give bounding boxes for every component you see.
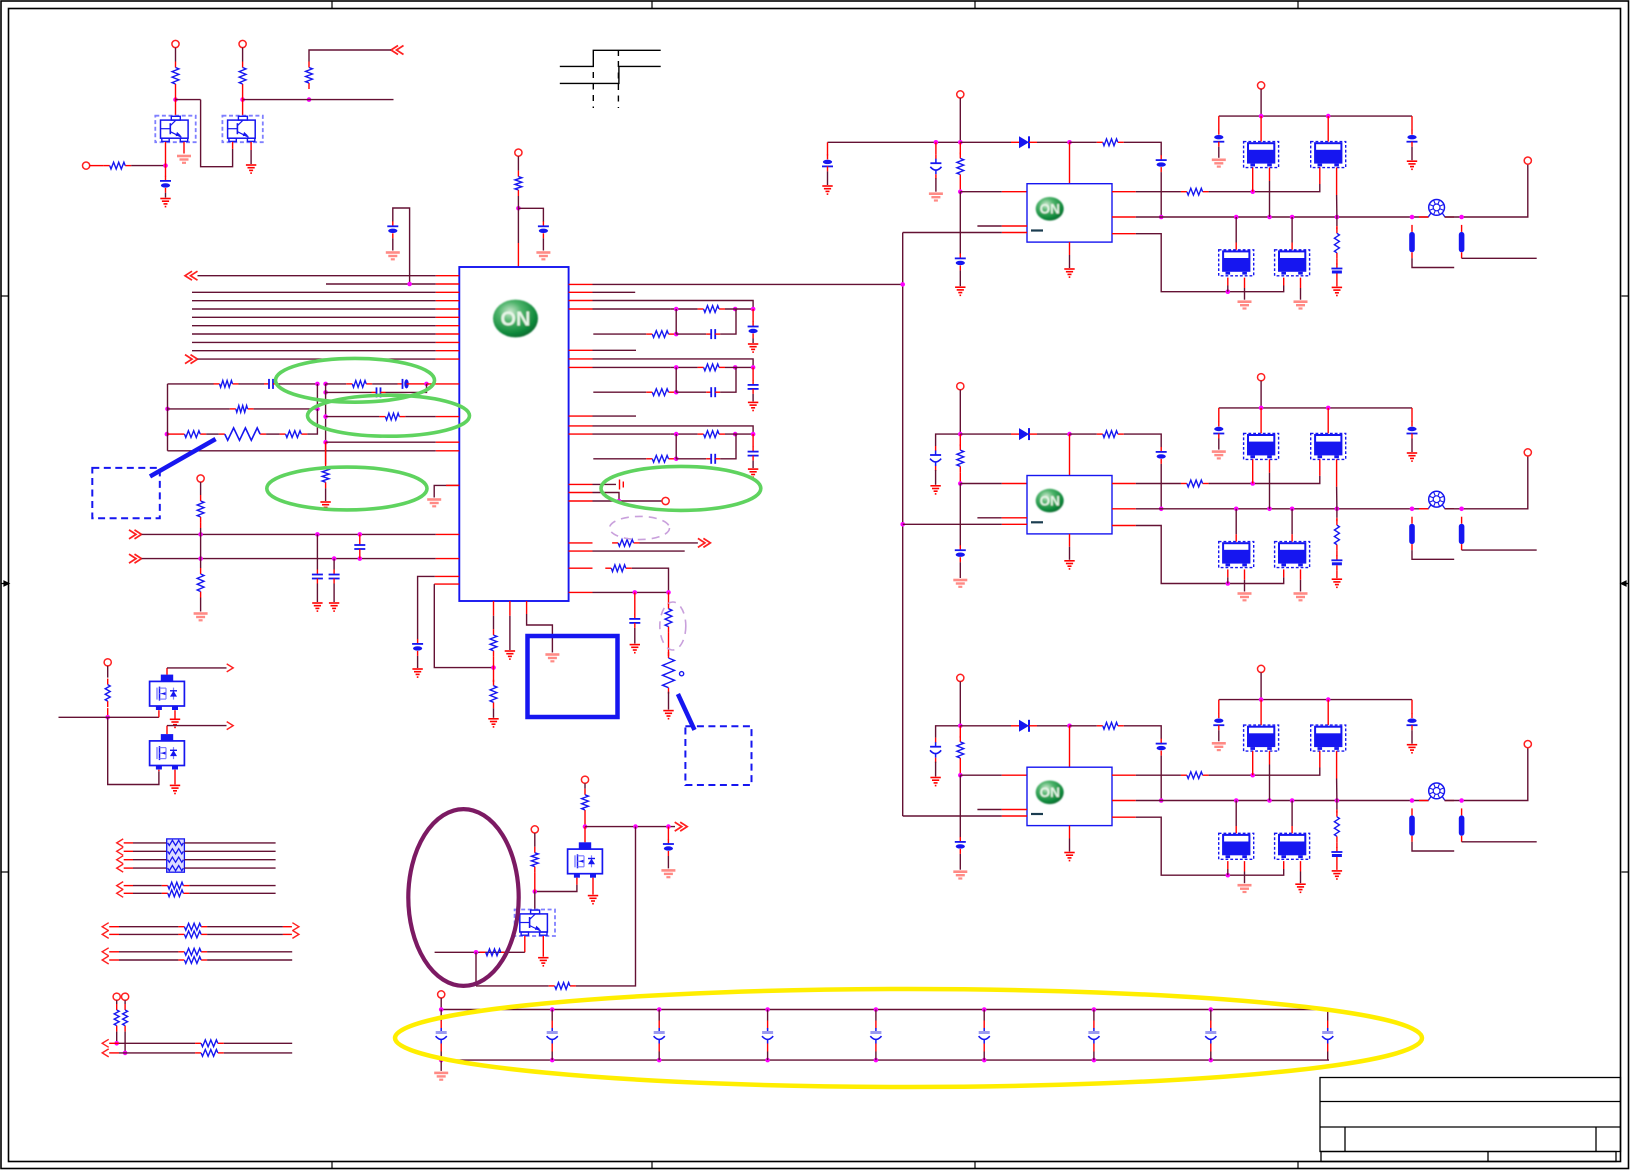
MOSFET module B3-M2 [1311, 725, 1346, 751]
capacitor B3-Cboot [1156, 739, 1167, 756]
pin stub R8row [569, 415, 593, 417]
wire blocks bus vertical [902, 233, 904, 817]
wire R24 to N28 [124, 1032, 126, 1053]
port B1-Pvcc [1258, 82, 1265, 89]
resistor B2-Rg1 [1181, 480, 1209, 487]
wire bank cap 2 top [551, 1010, 553, 1021]
wire B1 lowgate row [1136, 234, 1284, 292]
wire B1 M4 drain [1291, 217, 1293, 243]
bank cap 1 bot stub [440, 1044, 442, 1052]
junction bank top 1 [439, 1007, 444, 1012]
wire B2 after fan [1445, 456, 1528, 509]
resistor R14 [197, 495, 204, 523]
wire B3 Cs gnd [1336, 862, 1338, 870]
junction RCg1 A [674, 307, 679, 312]
highlight ellipse yellow [395, 989, 1422, 1087]
wire U1 pin row 1 [198, 275, 436, 277]
resistor R12 [280, 431, 308, 438]
pin stub row 10 [436, 350, 460, 352]
wire B3 sense stub [1336, 810, 1338, 813]
junction N9 [424, 382, 429, 387]
MOSFET MB [150, 734, 185, 769]
highlight ellipse green 4 [601, 466, 761, 510]
junction B3-Np4 [1335, 798, 1340, 803]
power ground B2-G4 [1064, 561, 1074, 569]
wire B3 M3 gate [1227, 869, 1229, 875]
pin stub B2 [509, 601, 511, 616]
wire RCg1 lower mid [676, 333, 706, 335]
svg-text:ON: ON [1040, 493, 1060, 508]
wire IC pin 584 west [434, 583, 459, 585]
wire RCg1 lower right corner [720, 309, 736, 334]
resistor B3-Rboot [1097, 722, 1124, 729]
pin stub row 6 [436, 316, 460, 318]
wire B1 M2 source stub [1336, 168, 1338, 195]
resistor RCg1 R1 [698, 306, 725, 313]
wire B2 Cin2 gnd [935, 470, 937, 485]
wire R14 to N16 [200, 523, 202, 528]
inductor B2-L2 [1459, 517, 1465, 550]
diode B1-D1 [1011, 136, 1037, 148]
wire R26 to N32 [534, 873, 536, 892]
inductor B2-L1 [1409, 517, 1415, 550]
wire R11 to R12 [266, 433, 280, 435]
signal ground B3-G5 [1212, 743, 1226, 750]
pin stub row 8 [436, 333, 460, 335]
junction N23 [617, 499, 622, 504]
connector CN3-3 [117, 856, 124, 864]
wire B1 M3 gate [1227, 286, 1229, 292]
wire RCg2 mid seg2 [670, 366, 697, 368]
resistor RG4-1 [178, 948, 207, 955]
resistor RG3-2 [178, 931, 207, 938]
ON logo B3 [1036, 781, 1064, 805]
junction B1-Np4 [1335, 215, 1340, 220]
pin stub B3 L3 [1002, 815, 1027, 817]
junction B1-Np3 [1290, 215, 1295, 220]
MOSFET module B1-M3 [1219, 250, 1254, 276]
wire bank cap 9 bottom [1327, 1052, 1329, 1061]
wire B1 Ct1 gnd [1218, 147, 1220, 158]
wire N4 to C1 [165, 166, 167, 177]
wire U1 pin row 9 [192, 341, 436, 343]
pin stub 492 [569, 492, 593, 494]
wire row 826 [585, 826, 675, 828]
capacitor B1-Cst [955, 253, 966, 270]
MOSFET module B1-M1 [1244, 142, 1279, 168]
power ground G15 [505, 651, 515, 659]
resistor RG2-2 [162, 890, 190, 897]
wire B2 fan stub left [1419, 508, 1429, 510]
wire Q1 base to N4 [165, 142, 167, 166]
wire N2 to Q2 collector [242, 90, 244, 116]
pin stub 485 [446, 484, 459, 486]
junction B1-Nsw1 [1159, 215, 1164, 220]
pin stub B3 L1 [1002, 774, 1027, 776]
wire B2 Nboot to IC top [1069, 434, 1071, 475]
capacitor CB1 [436, 1028, 447, 1044]
wire bank cap 4 top [767, 1010, 769, 1021]
wire B1 gate row [1136, 191, 1181, 193]
wire C2 to ground [542, 238, 544, 250]
wire B1 Ct2 gnd [1411, 147, 1413, 161]
resistor RCg1 R2 [646, 331, 674, 338]
wire B1 Pvcc down [1260, 89, 1262, 116]
off-page connector OP6 [675, 822, 688, 831]
resistor R3 [306, 62, 313, 90]
junction N29 [583, 824, 588, 829]
capacitor B2-Cin2 [930, 446, 941, 471]
junction bank bottom 5 [874, 1058, 879, 1063]
junction bank bottom 4 [765, 1058, 770, 1063]
wire U1 pin row 10 [192, 350, 436, 352]
pin stub R3row [569, 300, 593, 302]
junction B2-Nsw1 [1159, 507, 1164, 512]
wire B2 M1 gate [1252, 459, 1254, 483]
port B1-Pvin [957, 91, 964, 98]
wire C10 to ground [417, 656, 419, 668]
wire RC group2 top [593, 359, 754, 368]
border center arrow right [1621, 581, 1629, 586]
pin stub B2 R2 [1112, 508, 1136, 510]
wire QD base down [524, 936, 526, 952]
resistor R5 [515, 171, 522, 196]
wire RC group3 top [593, 426, 754, 434]
bank cap 7 top stub [1093, 1021, 1095, 1029]
wire N1 to Q2 base [201, 100, 233, 167]
junction RCg1 B [733, 307, 738, 312]
power ground G3 [246, 165, 256, 173]
wire G4 row1 stub [109, 951, 119, 953]
junction bank top 7 [1092, 1007, 1097, 1012]
capacitor CB5 [870, 1028, 881, 1044]
wire B3 M4 drain [1291, 801, 1293, 827]
wire B1 Rs to Cs [1336, 259, 1338, 265]
resistor R15 [197, 568, 204, 598]
MOSFET module B2-M1 [1244, 433, 1279, 459]
port B1-Pout [1524, 157, 1531, 164]
wire N5 to IC VCC pin [517, 196, 519, 243]
wire B3 Nst down [959, 775, 961, 837]
junction N16 [198, 532, 203, 537]
wire B2 Ct1 top [1218, 408, 1220, 422]
wire R25 to N29 [584, 816, 586, 827]
junction B2-Np2 [1267, 507, 1272, 512]
capacitor RCg3 C2 [748, 447, 759, 461]
wire B3 M3 drain stub [1235, 826, 1237, 833]
wire row D [326, 416, 380, 418]
wire B2 gate row [1136, 483, 1181, 485]
wire B2 Nvin to Rst [959, 434, 961, 446]
wire B3 after fan [1445, 748, 1528, 801]
connector CN8-2 [102, 1049, 109, 1057]
wire P12 to bank [440, 998, 442, 1010]
resistor R6 [214, 381, 239, 388]
resistor RCg2 R2 [646, 389, 674, 396]
junction B2-Np5 [1410, 507, 1415, 512]
MOSFET module B2-M2 [1311, 433, 1346, 459]
bank cap 2 top stub [551, 1021, 553, 1029]
wire B3 gate row2 [1209, 768, 1320, 776]
wire B2 IC gnd [1069, 547, 1071, 560]
resistor RCg2 R1 [698, 364, 725, 371]
wire P5 to R14 [200, 482, 202, 495]
wire RC group1 top [593, 301, 754, 310]
wire U1 pin row 3 [192, 291, 436, 293]
wire C1 to ground [165, 193, 167, 198]
wire P9 to R24 [124, 1000, 126, 1004]
wire RCg1 mid seg2 [670, 308, 697, 310]
junction RCg3 C [751, 432, 756, 437]
power ground B1-G7 [1332, 287, 1342, 295]
port P7 [104, 659, 111, 666]
wire U1 pin row 2 [326, 283, 436, 285]
capacitor CB8 [1205, 1028, 1216, 1044]
connector CN4-2 [117, 889, 124, 897]
pin stub row 9 [436, 341, 460, 343]
wire B1 port to rail [959, 98, 961, 142]
junction bank bottom 7 [1092, 1058, 1097, 1063]
wire G1 row1 left stub [124, 842, 133, 844]
pin stub R2row [569, 291, 593, 293]
pin stub R10row [569, 433, 593, 435]
resistor R11 [219, 428, 266, 440]
wire G5 row1 right [224, 1042, 292, 1044]
wire B1 Rst to Nst [959, 181, 961, 192]
capacitor C5 [398, 379, 412, 389]
wire B2 Ct2 gnd [1411, 439, 1413, 453]
power ground G17 [170, 719, 180, 727]
wire B3 Cst gnd [959, 854, 961, 870]
wire G1 row3 right [184, 859, 275, 861]
power ground B3-G2 [930, 778, 940, 786]
capacitor B3-Cin2 [930, 738, 941, 763]
wire bank cap 7 top [1093, 1010, 1095, 1021]
port P11 [531, 826, 538, 833]
MOSFET module B2-M4 [1275, 542, 1310, 568]
wire B3 Pvcc down [1260, 673, 1262, 700]
off-page connector OP2 [185, 271, 198, 280]
resistor RCg3 R2 [646, 455, 674, 462]
wire R4 to N4 [131, 165, 165, 167]
wire B2 M3 drain stub [1235, 534, 1237, 541]
wire P4 to R5 [517, 156, 519, 170]
pin stub R7row [569, 366, 593, 368]
off-page connector OP4 [129, 530, 142, 539]
pin stub B2 R1 [1112, 483, 1136, 485]
wire B2 M3 src gnd [1244, 580, 1246, 592]
port B3-Pout [1524, 741, 1531, 748]
connector CN6-2 [292, 930, 299, 938]
power ground B1-G3 [955, 287, 965, 295]
junction RCg2 A [674, 365, 679, 370]
wire G1 row4 left [133, 867, 167, 869]
wire B1 M4 drain stub [1291, 243, 1293, 250]
transistor QD [515, 910, 555, 937]
resistor RG5-2 [195, 1050, 224, 1057]
wire B2 M1 source stub [1269, 459, 1271, 472]
wire B1 lowrow to bus [903, 232, 1002, 234]
pin stub row 5 [436, 308, 460, 310]
wire N5 branch to C2 [518, 208, 543, 222]
wire row C left segment [168, 408, 230, 410]
resistor RG3-1 [178, 923, 207, 930]
wire B2 L1 tail [1412, 550, 1454, 559]
capacitor C4 [264, 379, 278, 389]
wire N16 to N19 [200, 534, 202, 558]
highlight ellipse lavender 2 [660, 602, 686, 650]
capacitor CB3 [654, 1028, 665, 1044]
wire G5 row2 stub [109, 1052, 119, 1054]
wire G2 row1 left [133, 885, 162, 887]
wire 484 to marker [593, 483, 617, 485]
wire B3 M2 source stub [1336, 751, 1338, 778]
wire B1 sense stub [1336, 226, 1338, 229]
wire B1 M4 src gnd [1300, 288, 1302, 300]
wire B2 top rail [1219, 407, 1412, 409]
bank cap 7 bot stub [1093, 1044, 1095, 1052]
capacitor B3-Ct1 [1213, 713, 1224, 730]
resistor R19 (pot) [663, 652, 675, 694]
wire MA drain stub [166, 668, 168, 675]
wire B3 lowrow from bus [903, 815, 1002, 817]
junction RCg2 B [733, 365, 738, 370]
wire MB drain to arrow [167, 725, 227, 727]
port P3 [83, 162, 90, 169]
wire B2 sense top [1336, 509, 1338, 518]
wire row 534 [142, 533, 436, 535]
wire N17 down [316, 534, 318, 569]
wire B2 M2 source [1336, 487, 1338, 509]
wire G2 row2 right [189, 892, 275, 894]
wire P10 to R25 [584, 783, 586, 789]
pin stub B1 R2 [1112, 216, 1136, 218]
wire N1 west [176, 99, 201, 101]
capacitor CB6 [979, 1028, 990, 1044]
wire B1 L2 tail [1462, 257, 1537, 259]
wire RC group3 mid [593, 433, 671, 435]
wire C7 to ground [316, 584, 318, 603]
wire R13 to ground [325, 488, 327, 501]
port P12 [438, 991, 445, 998]
wire B3 M2 gate [1319, 751, 1321, 767]
junction N10 [323, 390, 328, 395]
wire MA source down [174, 710, 176, 720]
capacitor CB4 [762, 1028, 773, 1044]
wire QD emitter down [542, 936, 544, 957]
wire B3 M4 gate stub [1283, 861, 1285, 869]
resistor B1-Rst [957, 152, 964, 180]
wire G1 row2 right [184, 850, 275, 852]
gate driver IC B1-U [1027, 184, 1112, 242]
wire OP1 to R3 [309, 50, 391, 62]
wire B1 M3 gate stub [1227, 278, 1229, 286]
pin stub 568 [569, 567, 593, 569]
wire B1 IC gnd [1069, 255, 1071, 268]
wire R19 to ground [668, 692, 670, 710]
wire B1 Cs gnd [1336, 279, 1338, 287]
inductor B3-L1 [1409, 808, 1415, 841]
wire N26 down to MB gate [108, 717, 159, 784]
wire G2 row2 stub [124, 892, 133, 894]
resistor B2-Rboot [1097, 431, 1124, 438]
inductor B1-L1 [1409, 225, 1415, 258]
junction B3-Nboot [1067, 724, 1072, 729]
off-page connector OP5 [698, 538, 711, 547]
signal ground G21 [661, 870, 675, 877]
wire B3 top rail [1219, 699, 1412, 701]
junction N17 [315, 532, 320, 537]
power ground G19 [588, 896, 598, 904]
capacitor B1-Ct2 [1407, 130, 1418, 147]
wire R17 corner down [632, 568, 669, 592]
wire B1 M3 drain [1235, 217, 1237, 243]
gate driver IC B2-U [1027, 476, 1112, 534]
resistor B3-Rg1 [1181, 772, 1209, 779]
junction N20 [332, 556, 337, 561]
junction bank bottom 2 [550, 1058, 555, 1063]
wire N7 vertical [316, 384, 318, 409]
port P2 [239, 40, 246, 47]
annotation stroke (blue pen mark) [678, 694, 695, 730]
wire R7 to C5 [372, 383, 397, 385]
MOSFET module B1-M2 [1311, 142, 1346, 168]
wire B3 rail seg2 [960, 725, 1011, 727]
junction N28 [123, 1051, 128, 1056]
wire B1 Nboot to IC top [1069, 142, 1071, 183]
main IC U1 [459, 267, 568, 601]
wire bank cap 5 top [875, 1010, 877, 1021]
border zone ticks top [331, 1, 333, 9]
junction N27 [114, 1041, 119, 1046]
wire P7 to R22 [107, 666, 109, 678]
wire MB source down [174, 770, 176, 785]
pin stub B1 bottom [1069, 242, 1071, 255]
svg-text:ON: ON [1040, 202, 1060, 217]
bank cap 6 top stub [983, 1021, 985, 1029]
port B3-Pvin [957, 674, 964, 681]
pin stub 501 [569, 500, 593, 502]
power ground G1 [160, 199, 170, 207]
pin stub row 1 [436, 275, 460, 277]
capacitor B1-Cin1 [822, 154, 833, 171]
capacitor CB7 [1088, 1028, 1099, 1044]
wire row 986 right [576, 827, 636, 986]
resistor R22 [105, 679, 110, 708]
wire RCg1 lower left [593, 333, 646, 335]
junction B2-Np1 [1234, 507, 1239, 512]
junction B1-Np5 [1410, 215, 1415, 220]
junction N26 [105, 715, 110, 720]
wire N2-N3 bus [243, 99, 394, 101]
wire bank cap 8 top [1210, 1010, 1212, 1021]
bank top rail [441, 1009, 1329, 1011]
capacitor B2-Ct2 [1407, 422, 1418, 439]
wire B1 pin L2 stub [977, 225, 1001, 227]
wire U1 pin row 7 [192, 325, 436, 327]
wire left loop vertical [167, 384, 169, 451]
bank cap 4 bot stub [767, 1044, 769, 1052]
connector CN3-1 [117, 839, 124, 847]
junction B2-Ng [1250, 481, 1255, 486]
wire 492 corner [593, 493, 620, 502]
wire B1 M3 drain stub [1235, 243, 1237, 250]
resistor R26 [531, 847, 538, 873]
junction B1-Ng [1250, 189, 1255, 194]
wire MC gate to N32 [535, 885, 577, 892]
junction bank bottom 6 [982, 1058, 987, 1063]
capacitor B2-Ct1 [1213, 422, 1224, 439]
